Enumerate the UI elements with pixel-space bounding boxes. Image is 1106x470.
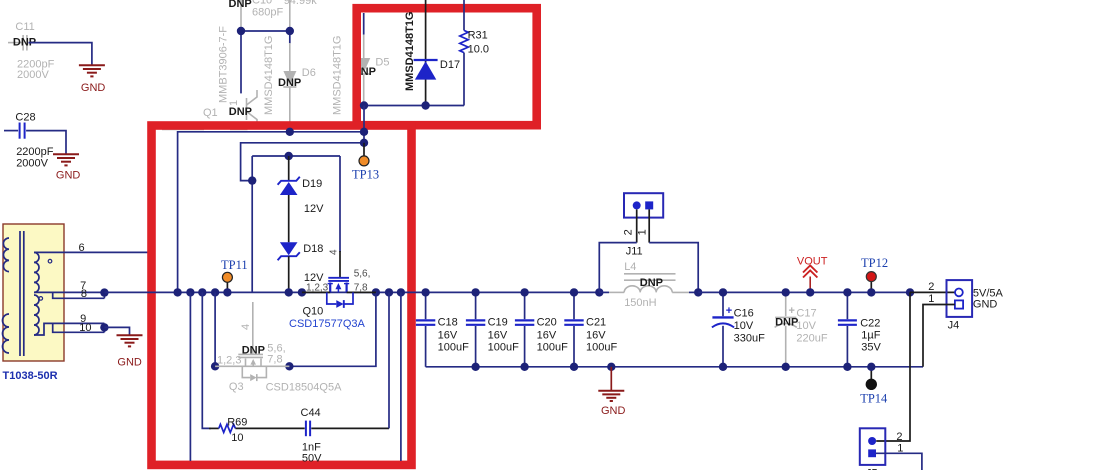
connector J4 [928, 280, 1003, 331]
junction bus TP11 [223, 288, 231, 296]
junction bus D18 [285, 288, 293, 296]
svg-text:16V: 16V [438, 330, 458, 342]
svg-text:10: 10 [79, 322, 91, 334]
svg-text:Q3: Q3 [229, 381, 244, 393]
ground GND (main) [598, 367, 625, 417]
svg-text:12V: 12V [304, 203, 324, 215]
wire zener net top [252, 155, 340, 157]
svg-text:D5: D5 [375, 57, 389, 69]
wire riser x389 [388, 292, 390, 428]
svg-text:C44: C44 [301, 407, 321, 419]
junction Q3 source [285, 362, 293, 370]
pin 8 wire [53, 292, 105, 298]
wire C28 right lead to ground [26, 131, 66, 154]
junction bus x178 [173, 288, 181, 296]
svg-text:7,8: 7,8 [354, 283, 368, 294]
svg-text:100uF: 100uF [586, 342, 617, 354]
junction bus C20 [520, 288, 528, 296]
diode D17 MMSD4148T1G [404, 0, 460, 106]
svg-text:MMSD4148T1G: MMSD4148T1G [332, 36, 344, 115]
junction bus L4 right [694, 288, 702, 296]
zener diode D18 12V [278, 242, 325, 292]
wire bottom loop left drop [202, 292, 211, 428]
svg-text:6: 6 [79, 242, 85, 254]
svg-text:10.0: 10.0 [468, 43, 489, 55]
svg-text:+: + [726, 305, 732, 317]
svg-text:TP13: TP13 [352, 168, 379, 182]
svg-text:CSD18504Q5A: CSD18504Q5A [266, 382, 342, 394]
test point TP11 [221, 258, 248, 292]
primary winding arcs (left) [3, 238, 9, 272]
wire C11 right lead to ground [29, 43, 92, 65]
junction bus C22 [843, 288, 851, 296]
junction bus TP12 [867, 288, 875, 296]
wire J4 pin 1 to bottom bus [923, 305, 955, 367]
pin 10 wire [53, 323, 105, 332]
junction bottom C21 [570, 363, 578, 371]
wire drop x215 to Q3 drain [214, 292, 216, 366]
svg-text:35V: 35V [861, 341, 881, 353]
resistor R69 10 [209, 417, 247, 444]
pin 7 wire [34, 291, 104, 293]
svg-text:100uF: 100uF [488, 342, 519, 354]
svg-text:Q1: Q1 [203, 107, 218, 119]
wire drop x190 to bottom [189, 292, 191, 461]
test point TP14 [860, 367, 888, 406]
svg-text:1: 1 [228, 100, 240, 106]
junction bus x202 [198, 288, 206, 296]
capacitor C21 16V 100uF [564, 292, 617, 366]
capacitor C10 680pF (DNP, gray, off top of crop) [229, 0, 284, 30]
junction D5 bottom [360, 101, 368, 109]
gray stubs peeking below red bar [162, 128, 204, 130]
svg-text:C28: C28 [15, 111, 35, 123]
svg-text:DNP: DNP [278, 77, 301, 89]
wire J11 bypass left [599, 243, 636, 293]
svg-text:+: + [789, 305, 795, 317]
phase dot winding A [48, 259, 52, 263]
svg-text:10: 10 [231, 432, 243, 444]
junction D17 bottom [421, 101, 429, 109]
ground GND (C11) [79, 65, 106, 94]
test point TP12 [861, 256, 888, 293]
capacitor C44 1nF 50V [301, 407, 323, 465]
junction bottom C16 [719, 363, 727, 371]
transistor Q1 MMBT3906-7-F (DNP, gray) [203, 26, 257, 125]
zener diode D19 12V [278, 156, 325, 242]
junction TP13 upper [360, 128, 368, 136]
svg-text:DNP: DNP [640, 277, 663, 289]
capacitor C19 16V 100uF [466, 292, 519, 366]
junction TP13 lower [360, 139, 368, 147]
wire drop x401 to bottom [400, 292, 402, 461]
svg-text:DNP: DNP [229, 0, 252, 10]
svg-text:2: 2 [623, 229, 635, 235]
wire C44 to bus riser [311, 427, 389, 429]
junction bottom C19 [471, 363, 479, 371]
wire bottom bus (GND net) [426, 366, 923, 368]
svg-text:DNP: DNP [242, 344, 265, 356]
svg-text:VOUT: VOUT [797, 255, 828, 267]
svg-text:GND: GND [973, 298, 998, 310]
svg-text:C17: C17 [796, 307, 816, 319]
junction D19 top [285, 152, 293, 160]
svg-text:TP14: TP14 [860, 392, 888, 406]
junction bus x190 [186, 288, 194, 296]
svg-text:7,8: 7,8 [267, 354, 282, 366]
svg-text:2000V: 2000V [16, 157, 48, 169]
wire Q1 net under red bar [178, 132, 364, 293]
ground GND (transformer) [117, 335, 143, 368]
junction bus x401 [397, 288, 405, 296]
core [19, 231, 21, 356]
svg-text:1,2,3: 1,2,3 [306, 283, 329, 294]
connector J5 [860, 428, 904, 470]
transformer T1 T1038-50R [3, 224, 65, 382]
body diode Q3 [242, 366, 250, 377]
svg-text:8: 8 [81, 288, 87, 300]
svg-text:94.99k: 94.99k [284, 0, 318, 7]
svg-text:TP12: TP12 [861, 256, 888, 270]
svg-text:D19: D19 [302, 178, 322, 190]
junction bus VOUT [806, 288, 814, 296]
svg-text:DNP: DNP [775, 317, 798, 329]
pin 6 wire [34, 251, 150, 253]
junction bus C19 [471, 288, 479, 296]
junction bus C21 [570, 288, 578, 296]
svg-text:GND: GND [601, 405, 626, 417]
red highlight box 2 [152, 126, 412, 465]
svg-text:680pF: 680pF [252, 7, 283, 19]
svg-text:C21: C21 [586, 317, 606, 329]
svg-text:2200pF: 2200pF [16, 146, 54, 158]
connector J11 [623, 193, 664, 257]
wire C10/R net to Q1 base [237, 27, 294, 94]
svg-text:1: 1 [928, 293, 934, 305]
inductor L4 150nH (DNP, gray) [599, 261, 698, 309]
svg-text:GND: GND [56, 170, 81, 182]
svg-text:D17: D17 [440, 59, 460, 71]
wire Q10 source down to Q3 source [289, 292, 376, 366]
svg-text:1µF: 1µF [861, 330, 880, 342]
svg-text:16V: 16V [537, 330, 557, 342]
junction bus Q10 source [372, 288, 380, 296]
svg-text:MMSD4148T1G: MMSD4148T1G [263, 36, 275, 115]
mosfet Q3 CSD18504Q5A (DNP, gray) [215, 302, 342, 394]
svg-text:1,2,3: 1,2,3 [217, 355, 241, 367]
svg-text:MMSD4148T1G: MMSD4148T1G [404, 12, 416, 91]
junction bus C16 [719, 288, 727, 296]
junction bottom C22 [843, 363, 851, 371]
junction bottom GND [607, 363, 615, 371]
svg-text:C19: C19 [488, 317, 508, 329]
svg-text:D6: D6 [302, 67, 316, 79]
svg-text:16V: 16V [488, 330, 508, 342]
svg-text:D18: D18 [303, 243, 323, 255]
junction Q3 drain [211, 362, 219, 370]
svg-text:100uF: 100uF [438, 342, 469, 354]
capacitor C11 2200pF 2000V (DNP, gray) [8, 21, 55, 81]
junction pins 9/10 [103, 323, 105, 332]
svg-text:R31: R31 [468, 30, 488, 42]
resistor R31 10.0 [460, 0, 489, 106]
wire bus right section [698, 291, 910, 293]
capacitor C17 220uF (DNP, gray) [775, 292, 828, 366]
wire R69 to C44 [235, 427, 304, 429]
diode D6 MMSD4148T1G (DNP, gray) [263, 36, 316, 132]
wire TP13 net horizontal [241, 143, 364, 181]
resistor 94.99k (DNP, gray, off top of crop) [284, 0, 318, 30]
junction bus x215 [211, 288, 219, 296]
svg-text:4: 4 [328, 249, 339, 255]
wire left branch down to bus [251, 156, 253, 292]
junction bus C17 [782, 288, 790, 296]
wire D5 net down through red bar [363, 106, 365, 143]
svg-text:C18: C18 [438, 317, 458, 329]
red highlight box 1 [357, 8, 537, 125]
ground GND (C28) [53, 154, 80, 181]
svg-text:GND: GND [117, 356, 141, 368]
test point TP13 [352, 143, 379, 182]
svg-text:J11: J11 [626, 246, 643, 258]
svg-text:1: 1 [637, 229, 649, 235]
svg-text:4: 4 [240, 324, 252, 330]
junction D6 bottom [286, 128, 294, 136]
svg-text:10V: 10V [734, 320, 754, 332]
junction bottom C20 [520, 363, 528, 371]
wire box1 bottom net [364, 105, 464, 107]
svg-text:GND: GND [81, 82, 106, 94]
mosfet Q10 CSD17577Q3A [289, 156, 376, 330]
wire bus to J4 pin 2 [910, 291, 955, 293]
capacitor C20 16V 100uF [515, 292, 568, 366]
svg-text:C10: C10 [252, 0, 272, 7]
junction bus L4 left [595, 288, 603, 296]
diode D5 MMSD4148T1G (DNP, gray) [332, 13, 390, 115]
svg-text:2000V: 2000V [17, 69, 49, 81]
junction bus C18 [421, 288, 429, 296]
svg-text:2: 2 [896, 431, 902, 443]
svg-text:5,6,: 5,6, [354, 269, 371, 280]
svg-text:TP11: TP11 [221, 258, 248, 272]
svg-text:2: 2 [928, 281, 934, 293]
secondary winding A [34, 252, 39, 292]
junction bottom C17 [782, 363, 790, 371]
junction pins 7/8 [103, 292, 105, 298]
capacitor C16 10V 330uF [712, 292, 765, 366]
main bus wire (5V node) [104, 291, 599, 293]
wire J5 pin 1 down [876, 453, 922, 470]
phase dot winding B [39, 297, 43, 301]
capacitor C28 2200pF 2000V [4, 111, 54, 169]
junction bus C44 [385, 288, 393, 296]
svg-text:R69: R69 [227, 417, 247, 429]
pin 9 wire [34, 323, 104, 335]
svg-text:Q10: Q10 [303, 305, 324, 317]
wire J11 bypass right [649, 243, 698, 293]
wire bus riser to J5 pin 2 [876, 292, 910, 441]
svg-text:C16: C16 [734, 307, 754, 319]
junction bus J4/J5 riser [906, 288, 914, 296]
svg-text:220uF: 220uF [796, 332, 827, 344]
svg-text:16V: 16V [586, 330, 606, 342]
junction bus Q10 drain [298, 288, 306, 296]
wire pins 9/10 to ground [104, 327, 129, 334]
svg-text:150nH: 150nH [624, 297, 656, 309]
svg-text:DNP: DNP [229, 106, 252, 118]
svg-text:CSD17577Q3A: CSD17577Q3A [289, 318, 365, 330]
svg-text:L4: L4 [624, 261, 636, 273]
svg-text:50V: 50V [302, 452, 322, 464]
svg-text:C22: C22 [860, 317, 880, 329]
junction bottom TP14 [867, 363, 875, 371]
svg-text:J4: J4 [948, 319, 960, 331]
svg-text:10V: 10V [796, 320, 816, 332]
svg-text:C20: C20 [537, 317, 557, 329]
svg-text:T1038-50R: T1038-50R [3, 370, 58, 382]
secondary winding B [34, 295, 39, 335]
svg-text:MMBT3906-7-F: MMBT3906-7-F [218, 26, 230, 103]
capacitor C22 1uF 35V [838, 292, 882, 366]
svg-text:100uF: 100uF [537, 342, 568, 354]
capacitor C18 16V 100uF [416, 292, 469, 366]
svg-text:330uF: 330uF [734, 332, 765, 344]
power symbol VOUT [797, 255, 828, 292]
junction outer/inner [248, 176, 256, 184]
svg-text:C11: C11 [15, 21, 34, 33]
body diode Q10 [327, 292, 337, 304]
